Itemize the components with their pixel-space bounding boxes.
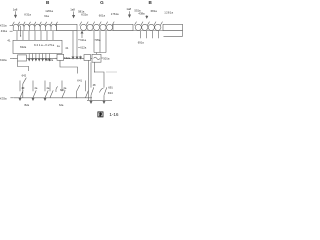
contact arrow below bus 1 <box>19 98 21 100</box>
pointer dash K32a mid <box>55 57 56 59</box>
svg-text:K32a: K32a <box>81 13 88 17</box>
pointer dash 501a <box>101 57 103 59</box>
svg-text:4a: 4a <box>34 86 37 90</box>
tap wires winding W1b to source box <box>94 31 106 54</box>
svg-text:K41: K41 <box>77 78 82 82</box>
faint stub wire right <box>106 71 117 73</box>
pointer dash 611a <box>78 39 80 41</box>
svg-text:K32a: K32a <box>47 58 54 62</box>
pointer dash K31a <box>10 24 13 26</box>
wire source box down left <box>90 62 92 100</box>
svg-text:B: B <box>46 0 50 5</box>
tap slash ticks above winding W1a <box>12 22 57 26</box>
branch switch J4 <box>50 82 53 98</box>
tap arrow 1a8 at R1a end <box>73 12 75 18</box>
svg-text:61a: 61a <box>44 14 49 18</box>
tap wires winding W1a to selector box <box>17 31 53 40</box>
svg-text:1a8: 1a8 <box>13 7 18 11</box>
svg-text:681a: 681a <box>151 9 158 13</box>
winding W1b loops <box>80 24 112 30</box>
pointer dash K33a <box>10 97 13 99</box>
svg-text:48: 48 <box>93 83 96 87</box>
switch unit box B <box>57 54 64 60</box>
svg-text:4a: 4a <box>46 86 49 90</box>
svg-text:642: 642 <box>22 74 27 78</box>
tap slash ticks above winding W1c <box>134 22 162 26</box>
svg-text:1261a: 1261a <box>45 9 53 13</box>
source box U1 (~) <box>92 54 101 62</box>
svg-text:501a: 501a <box>103 57 110 61</box>
contact arrow below bus 2 <box>32 98 34 100</box>
svg-text:1281a: 1281a <box>164 11 173 15</box>
wire switch 642 to bottom bus <box>22 84 24 98</box>
svg-text:691a: 691a <box>138 40 144 44</box>
junction dot <box>93 71 96 74</box>
svg-text:4a: 4a <box>63 86 66 90</box>
tap selector box K21a-K25a <box>13 40 62 53</box>
branch switch J1 <box>20 81 23 98</box>
junction dots bottom bus <box>20 96 77 99</box>
tap wires winding W1c stubs <box>141 31 159 38</box>
svg-text:B: B <box>149 0 153 5</box>
wire switch K41 to bottom bus <box>75 92 77 98</box>
svg-text:691: 691 <box>108 85 113 89</box>
svg-text:K31a: K31a <box>24 13 31 17</box>
svg-text:431a: 431a <box>1 29 8 33</box>
wire return stub under R1c <box>164 31 183 37</box>
switch blade 48 <box>91 87 94 95</box>
svg-text:41: 41 <box>7 38 11 42</box>
svg-text:601a: 601a <box>99 13 106 17</box>
svg-text:K33a: K33a <box>0 97 7 101</box>
svg-text:612a: 612a <box>80 45 86 49</box>
wire from box A down <box>18 61 29 71</box>
branch switch J3 <box>45 81 48 98</box>
junction dots bottom right bus <box>91 99 105 102</box>
pointer dash 431a <box>10 30 13 32</box>
contact arrow below right bus 1 <box>90 101 92 104</box>
sine symbol in source box <box>94 57 100 59</box>
tap arrow 1a8 into winding W1c <box>128 11 130 17</box>
svg-text:1761a: 1761a <box>111 12 119 16</box>
pointer dash 612a <box>78 46 80 48</box>
svg-text:K34: K34 <box>108 91 113 95</box>
resistor box R1a <box>57 24 78 30</box>
svg-text:1a8: 1a8 <box>126 7 131 11</box>
resistor box R1c <box>163 24 183 30</box>
svg-text:K32a: K32a <box>0 58 7 62</box>
contact arrow below right bus 2 <box>103 101 105 104</box>
arc pointer K34 <box>100 88 104 93</box>
tap arrow 1a8 into winding W1a <box>14 11 16 17</box>
svg-text:G: G <box>100 0 104 5</box>
caption 图 glyph <box>98 112 103 117</box>
winding W1a arches <box>13 24 56 30</box>
arc pointer 641 <box>56 87 58 93</box>
tap arm wire at winding W1a <box>20 26 22 37</box>
resistor box R1b <box>113 24 133 30</box>
pointer dash K32a left <box>10 57 13 59</box>
selector contacts under box <box>28 54 50 61</box>
branch switch J5 <box>62 81 65 98</box>
svg-text:1a8: 1a8 <box>70 8 75 12</box>
tap stub with arrow at winding W1b start <box>81 31 83 38</box>
tap arrow 438a <box>146 15 148 18</box>
svg-text:611a: 611a <box>80 38 86 42</box>
winding W1c loops <box>135 24 161 30</box>
wire from box B down <box>60 60 78 73</box>
tap arm dot <box>20 35 21 36</box>
svg-text:705a: 705a <box>94 38 100 42</box>
bus K32a <box>13 57 92 59</box>
svg-text:K21a~K25a: K21a~K25a <box>34 43 55 47</box>
wire drop 612a <box>76 31 78 59</box>
wire from box C down <box>88 60 90 100</box>
switch blade K41 <box>76 85 79 92</box>
svg-text:62a: 62a <box>59 103 64 107</box>
switch blade K34 <box>104 87 107 95</box>
branch switch J2 <box>33 81 36 98</box>
wire main winding row baseline <box>13 30 183 32</box>
svg-text:49: 49 <box>21 86 24 90</box>
svg-text:K31a: K31a <box>0 23 7 27</box>
svg-text:41: 41 <box>65 46 69 50</box>
svg-text:1-16: 1-16 <box>109 112 118 117</box>
svg-text:K32a: K32a <box>64 56 71 60</box>
branch switch J6 <box>86 81 89 98</box>
svg-text:B2a: B2a <box>25 103 30 107</box>
svg-text:438a: 438a <box>138 12 145 16</box>
tap slash ticks above winding W1b <box>80 22 115 26</box>
wire drop 611a <box>72 31 74 59</box>
bottom right bus <box>87 99 112 101</box>
switch blade 642 <box>23 78 27 84</box>
wire source box down right <box>95 62 105 100</box>
switch unit box C <box>84 55 91 61</box>
bottom bus K33a <box>14 97 92 99</box>
switch unit box A <box>18 55 27 61</box>
contact arrow below bus 3 <box>44 98 46 100</box>
svg-text:632a: 632a <box>20 45 27 49</box>
contact tick on bus <box>80 56 82 59</box>
